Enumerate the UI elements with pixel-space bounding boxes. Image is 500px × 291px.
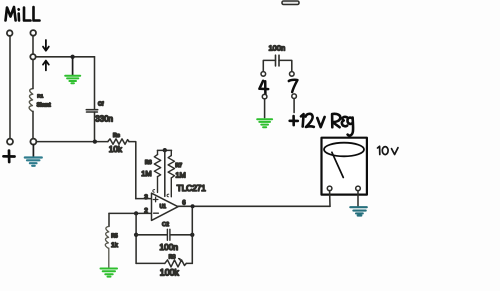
svg-text:1M: 1M bbox=[175, 170, 185, 179]
arrow up bbox=[43, 61, 49, 71]
svg-text:TLC271: TLC271 bbox=[177, 183, 207, 193]
terminal T1 top bbox=[7, 30, 13, 36]
wire Cf to bottom bbox=[94, 112, 96, 142]
wire bbox=[9, 36, 11, 139]
junction dot bbox=[93, 139, 97, 143]
label 7 (handwritten) bbox=[289, 80, 298, 92]
wire pin4 to ground bbox=[264, 99, 266, 118]
wire R8 to corner bbox=[186, 262, 192, 264]
feedback vertical left bbox=[135, 213, 137, 263]
svg-text:1k: 1k bbox=[111, 242, 119, 249]
terminal pin4 upper bbox=[261, 72, 266, 77]
wire bottom horizontal bbox=[36, 141, 108, 143]
wire node to R1 bbox=[32, 59, 34, 88]
junction dot C2 left bbox=[134, 233, 138, 237]
ground (green) under R5 bbox=[101, 269, 118, 277]
svg-text:330n: 330n bbox=[95, 115, 113, 124]
resistor R5 bbox=[105, 226, 109, 248]
wire Rs to corner bbox=[129, 142, 136, 199]
resistor R1 bbox=[29, 89, 33, 112]
wire C2 row left bbox=[136, 234, 167, 236]
svg-text:R7: R7 bbox=[175, 163, 182, 169]
svg-text:R8: R8 bbox=[169, 255, 176, 261]
svg-text:R1: R1 bbox=[37, 93, 43, 99]
svg-text:Shunt: Shunt bbox=[37, 103, 52, 109]
terminal T2 top bbox=[30, 30, 36, 36]
label + bbox=[4, 151, 15, 162]
wire R5 bottom bbox=[108, 248, 110, 267]
ground (teal) under terminal bbox=[25, 145, 42, 166]
meter needle bbox=[332, 152, 343, 177]
wire to Cf bbox=[94, 57, 96, 110]
wire output bbox=[178, 205, 331, 207]
ground (green) pin4 bbox=[257, 119, 272, 127]
svg-text:100k: 100k bbox=[160, 268, 180, 278]
resistor Rs bbox=[108, 139, 129, 144]
wire down to R5 bbox=[108, 213, 110, 226]
feedback vertical right bbox=[191, 206, 193, 263]
meter terminal right bbox=[356, 186, 361, 191]
label +12 v Reg (handwritten) bbox=[290, 114, 353, 136]
wire pin3 bbox=[136, 198, 152, 200]
terminal circle bottom bbox=[30, 139, 36, 145]
meter terminal left bbox=[327, 186, 332, 191]
arrow down bbox=[43, 40, 49, 51]
pin mark right bbox=[167, 194, 169, 197]
junction dot bbox=[134, 211, 138, 215]
meter dial ellipse bbox=[324, 143, 364, 157]
minus input mark bbox=[154, 212, 159, 214]
svg-text:R6: R6 bbox=[145, 160, 152, 166]
wire bottom rail bbox=[136, 262, 165, 264]
junction dot output bbox=[191, 204, 195, 208]
ground (teal) meter bbox=[350, 207, 367, 215]
wire meter right down bbox=[357, 191, 359, 207]
terminal T1 bottom bbox=[7, 139, 13, 145]
capacitor C2 bbox=[167, 229, 170, 240]
wire R1 bottom bbox=[32, 111, 34, 138]
wire top horizontal bbox=[36, 56, 95, 58]
wire pin7 cap bbox=[279, 60, 292, 71]
wiper mark R8 bbox=[178, 258, 181, 261]
wire R6R7 top bar bbox=[158, 149, 172, 151]
svg-text:U1: U1 bbox=[160, 204, 167, 210]
terminal pin4 lower bbox=[262, 94, 267, 99]
svg-text:C2: C2 bbox=[162, 222, 169, 228]
capacitor C (pins 4-7) bbox=[276, 55, 280, 66]
svg-text:100n: 100n bbox=[269, 43, 286, 52]
svg-text:R5: R5 bbox=[111, 234, 118, 240]
junction dot bbox=[70, 55, 74, 59]
svg-text:1M: 1M bbox=[141, 169, 151, 178]
resistor R6 bbox=[154, 150, 160, 192]
wire meter left down bbox=[329, 191, 331, 207]
ground (green) top bbox=[65, 58, 80, 83]
plus input mark bbox=[153, 197, 158, 202]
op-amp U1 bbox=[152, 193, 179, 220]
junction dot C2 right bbox=[190, 233, 194, 237]
scan smudge top bbox=[282, 1, 299, 5]
wire pin4 cap bbox=[263, 60, 275, 71]
pin mark left bbox=[153, 190, 155, 193]
wire bbox=[32, 36, 34, 55]
wire pin2 bbox=[109, 212, 151, 214]
resistor R8 bbox=[165, 260, 187, 267]
svg-text:10k: 10k bbox=[109, 145, 123, 154]
title MiLL bbox=[6, 7, 40, 21]
terminal pin7 lower bbox=[292, 94, 297, 99]
wire pin7 stub bbox=[293, 99, 295, 113]
resistor R7 bbox=[168, 150, 174, 196]
label 4 (handwritten) bbox=[259, 81, 268, 95]
svg-text:100n: 100n bbox=[159, 242, 178, 252]
label 10 v (handwritten) bbox=[378, 146, 399, 154]
node circle bbox=[30, 54, 35, 59]
svg-text:Rs: Rs bbox=[113, 133, 120, 139]
wire C2 row right bbox=[170, 234, 192, 236]
svg-text:3: 3 bbox=[144, 194, 148, 201]
junction dot bbox=[163, 148, 167, 152]
terminal pin7 upper bbox=[290, 72, 295, 77]
capacitor Cf bbox=[86, 110, 97, 112]
meter M1 body bbox=[322, 138, 367, 195]
wire middle pin bbox=[164, 150, 166, 196]
svg-text:Cf: Cf bbox=[98, 102, 104, 108]
